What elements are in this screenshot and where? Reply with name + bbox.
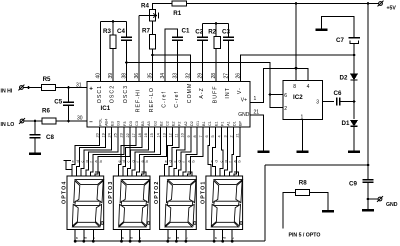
svg-text:R5: R5 xyxy=(43,76,51,83)
junction C8 xyxy=(34,120,37,123)
svg-text:21: 21 xyxy=(236,133,240,137)
svg-text:C3: C3 xyxy=(135,121,139,126)
svg-text:d: d xyxy=(130,237,134,239)
svg-text:GND: GND xyxy=(386,202,398,208)
wire IN LO to pin 30 xyxy=(24,120,87,122)
svg-text:b: b xyxy=(191,160,195,162)
svg-text:38: 38 xyxy=(122,73,128,79)
svg-text:C7: C7 xyxy=(336,37,344,44)
junction C5 bottom xyxy=(67,120,70,123)
wire down to display bus xyxy=(264,165,266,241)
svg-text:e: e xyxy=(214,237,218,239)
svg-text:2: 2 xyxy=(230,135,234,137)
svg-text:D2: D2 xyxy=(340,74,348,81)
svg-text:b: b xyxy=(145,160,149,162)
svg-text:g: g xyxy=(178,160,182,162)
display OPTO4 (7-segment) xyxy=(67,176,104,243)
svg-text:4: 4 xyxy=(217,135,221,137)
svg-text:BP: BP xyxy=(239,120,243,126)
svg-text:d: d xyxy=(168,160,172,162)
svg-text:D1: D1 xyxy=(233,121,237,126)
svg-text:OPTO1: OPTO1 xyxy=(201,181,207,204)
svg-text:d: d xyxy=(122,160,126,162)
svg-text:C2: C2 xyxy=(166,121,170,126)
svg-text:R3: R3 xyxy=(103,28,111,35)
wire IC2 pin 1 to ground xyxy=(302,120,304,151)
svg-text:G2: G2 xyxy=(153,121,157,126)
wire pin 3 to C6 xyxy=(323,101,335,103)
svg-text:B1: B1 xyxy=(202,121,206,126)
svg-text:e: e xyxy=(71,160,75,162)
diode D1 xyxy=(351,121,358,127)
junction C5 top xyxy=(67,86,70,89)
capacitor C5 xyxy=(63,102,74,105)
capacitor C4 xyxy=(121,37,132,40)
svg-text:F3: F3 xyxy=(123,122,127,126)
terminal +5V xyxy=(378,1,384,7)
wire IN LO to C8 xyxy=(34,121,36,135)
wire C4 to OSC3 pin 38 xyxy=(126,40,128,81)
resistor R3 xyxy=(112,22,114,36)
terminal IN HI xyxy=(18,85,24,91)
svg-text:d: d xyxy=(215,160,219,162)
svg-text:24: 24 xyxy=(108,133,112,137)
svg-text:3: 3 xyxy=(223,135,227,137)
svg-text:c: c xyxy=(92,237,96,239)
svg-text:c: c xyxy=(231,237,235,239)
svg-text:e: e xyxy=(118,160,122,162)
svg-text:c: c xyxy=(173,161,177,163)
svg-text:R6: R6 xyxy=(42,108,50,115)
svg-text:31: 31 xyxy=(76,83,82,89)
svg-text:IC1: IC1 xyxy=(101,105,111,112)
wire C6 node to D1 xyxy=(353,102,355,120)
wire segment pin 23 to display 4 xyxy=(90,127,124,176)
svg-text:e: e xyxy=(210,160,214,162)
junction GND node xyxy=(367,198,370,201)
svg-text:C2: C2 xyxy=(195,28,203,35)
svg-text:36: 36 xyxy=(134,73,140,79)
svg-text:C5: C5 xyxy=(54,99,62,106)
svg-text:g: g xyxy=(224,160,228,162)
svg-text:1: 1 xyxy=(254,96,257,102)
wire +5V to IC2 pin 8 xyxy=(295,4,297,81)
svg-text:E1: E1 xyxy=(214,121,218,126)
junction REF-LO link xyxy=(151,54,154,57)
svg-text:R4: R4 xyxy=(141,2,149,9)
svg-text:d: d xyxy=(76,160,80,162)
svg-text:e: e xyxy=(168,237,172,239)
svg-text:13: 13 xyxy=(162,133,166,137)
wire +5V rail xyxy=(187,3,379,5)
svg-text:+: + xyxy=(89,86,93,93)
svg-text:20: 20 xyxy=(95,133,99,137)
svg-text:E3: E3 xyxy=(111,121,115,126)
svg-text:A1: A1 xyxy=(227,121,231,126)
wire R3 to OSC2 pin 39 xyxy=(112,49,114,82)
wire segment pin 24 to display 4 xyxy=(81,127,112,176)
wire pin 1 V+ to IC2 pin 4 xyxy=(250,68,308,102)
svg-text:28: 28 xyxy=(211,73,217,79)
svg-text:5: 5 xyxy=(211,135,215,137)
junction xyxy=(367,2,370,5)
svg-text:g: g xyxy=(131,160,135,162)
svg-text:21: 21 xyxy=(254,110,260,116)
wire D1 to ground xyxy=(353,126,355,151)
wire display1 left staircase xyxy=(63,160,72,176)
svg-text:c: c xyxy=(127,161,131,163)
ground R8 xyxy=(322,210,334,212)
capacitor C8 xyxy=(30,135,41,138)
junction xyxy=(295,2,298,5)
svg-text:REF-LO: REF-LO xyxy=(149,87,155,112)
svg-text:PIN 5 / OPTO: PIN 5 / OPTO xyxy=(289,233,321,239)
ground D1 xyxy=(348,151,360,153)
svg-text:3: 3 xyxy=(316,99,319,105)
svg-text:c: c xyxy=(80,161,84,163)
junction OSC3 bus xyxy=(125,61,128,64)
svg-text:V-: V- xyxy=(237,87,243,94)
svg-text:E2: E2 xyxy=(172,121,176,126)
ground C7 xyxy=(316,29,328,31)
wire to OSC1 pin 40 xyxy=(100,22,102,82)
svg-text:OPTO2: OPTO2 xyxy=(154,181,160,204)
svg-text:12: 12 xyxy=(169,133,173,137)
wire segment pin 15 to display 3 xyxy=(132,127,154,176)
svg-text:OPTO4: OPTO4 xyxy=(62,181,68,204)
svg-text:POL: POL xyxy=(98,118,102,126)
terminal IN LO xyxy=(19,118,25,124)
wire segment pin 10 to display 2 xyxy=(174,127,185,176)
svg-text:IN HI: IN HI xyxy=(1,89,13,95)
svg-text:29: 29 xyxy=(198,73,204,79)
wire C8 to ground xyxy=(34,138,36,153)
svg-text:G3: G3 xyxy=(117,121,121,126)
svg-text:C9: C9 xyxy=(349,180,357,187)
svg-text:25: 25 xyxy=(114,133,118,137)
svg-text:C6: C6 xyxy=(334,90,342,97)
capacitor C9 xyxy=(363,180,374,183)
resistor R7 xyxy=(150,35,156,50)
wire C7 to D2 xyxy=(353,44,355,75)
wire +5V down right side xyxy=(367,4,369,166)
wire pin 21 GND to ground xyxy=(250,115,264,151)
wire R4 wiper to REF-HI pin 36 xyxy=(138,16,140,82)
wire C9 to GND node xyxy=(367,182,369,199)
display OPTO1 (7-segment) xyxy=(206,176,243,243)
ground GND node xyxy=(362,209,374,211)
svg-text:16: 16 xyxy=(144,133,148,137)
svg-text:d: d xyxy=(83,237,87,239)
svg-text:10: 10 xyxy=(181,133,185,137)
wire to C4 xyxy=(126,22,128,38)
svg-text:39: 39 xyxy=(108,73,114,79)
wire segment pin 5 to display 1 xyxy=(213,127,216,176)
svg-text:1: 1 xyxy=(301,115,304,121)
wire IN HI to pin 31 xyxy=(23,87,87,89)
wire segment pin 7 to display 2 xyxy=(188,127,204,176)
svg-text:R2: R2 xyxy=(208,28,216,35)
svg-text:18: 18 xyxy=(138,133,142,137)
wire segment pin 9 to display 2 xyxy=(178,127,191,176)
wire segment pin 12 to display 2 xyxy=(165,127,173,176)
terminal GND xyxy=(377,196,383,202)
svg-text:C-ref: C-ref xyxy=(174,91,180,108)
wire to pin 2 xyxy=(270,95,283,108)
svg-text:27: 27 xyxy=(224,73,230,79)
wire R8 to PIN 5 OPTO xyxy=(283,193,296,229)
wire C1 to C-ref pin 33 xyxy=(177,40,179,81)
svg-text:19: 19 xyxy=(101,133,105,137)
svg-text:IN LO: IN LO xyxy=(1,122,15,128)
svg-text:F2: F2 xyxy=(178,122,182,126)
svg-text:17: 17 xyxy=(132,133,136,137)
svg-text:C1: C1 xyxy=(208,121,212,126)
diode D2 xyxy=(351,74,358,80)
svg-text:9: 9 xyxy=(187,135,191,137)
capacitor C6 xyxy=(337,98,340,106)
svg-text:OSC3: OSC3 xyxy=(123,85,129,103)
svg-text:AB4: AB4 xyxy=(105,119,109,126)
wire segment pin 8 to display 2 xyxy=(183,127,197,176)
wire segment pin 4 to display 1 xyxy=(220,127,223,176)
wire segment pin 3 to display 1 xyxy=(225,127,228,176)
svg-text:6: 6 xyxy=(284,93,287,99)
wire segment pin 21 to display 1 xyxy=(234,127,240,176)
wire segment pin 25 to display 4 xyxy=(86,127,118,176)
resistor R5 xyxy=(42,85,56,91)
junction xyxy=(367,164,370,167)
svg-text:d: d xyxy=(176,237,180,239)
wire C6 to diode node xyxy=(340,101,354,103)
svg-text:e: e xyxy=(164,160,168,162)
capacitor C1 xyxy=(172,37,183,40)
svg-text:32: 32 xyxy=(186,73,192,79)
svg-text:IC2: IC2 xyxy=(293,94,303,101)
svg-text:C-ref: C-ref xyxy=(162,91,168,108)
svg-text:40: 40 xyxy=(96,73,102,79)
wire to C3 xyxy=(228,24,230,38)
potentiometer R4 xyxy=(150,10,156,22)
svg-text:e: e xyxy=(121,237,125,239)
wire REF-LO to COMM pin 32 xyxy=(153,55,191,82)
svg-text:7: 7 xyxy=(199,135,203,137)
svg-text:G1: G1 xyxy=(196,121,200,126)
wire V- pin 26 to charge pump xyxy=(241,55,355,82)
wire segment pin 2 to display 1 xyxy=(229,127,233,176)
wire to GND terminal xyxy=(368,198,378,200)
svg-text:15: 15 xyxy=(150,133,154,137)
wire segment pin 18 to display 3 xyxy=(123,127,142,176)
wire to C5 xyxy=(68,88,70,103)
svg-text:INT: INT xyxy=(225,87,231,99)
wire segment pin 17 to display 3 xyxy=(118,127,136,176)
wire R4 to R7 xyxy=(152,21,154,35)
svg-text:A3: A3 xyxy=(147,121,151,126)
svg-text:OSC1: OSC1 xyxy=(97,85,103,103)
resistor R2 xyxy=(215,24,217,37)
svg-text:F1: F1 xyxy=(220,122,224,126)
IC U2 IC2 body (555) xyxy=(283,81,323,120)
junction IC2 pins 2-6 xyxy=(269,93,272,96)
svg-text:R8: R8 xyxy=(299,180,307,187)
wire segment pin 11 to display 2 xyxy=(169,127,179,176)
svg-text:c: c xyxy=(138,237,142,239)
svg-text:26: 26 xyxy=(236,73,242,79)
wire segment pin 16 to display 3 xyxy=(128,127,149,176)
ground C8 xyxy=(29,153,41,155)
wire R7 to REF-LO pin 35 xyxy=(152,49,154,82)
wire segment pin 13 to display 3 xyxy=(141,127,166,176)
wire C5 to IN LO xyxy=(68,105,70,121)
junction xyxy=(215,22,218,25)
wire C3 to INT pin 27 xyxy=(228,40,230,81)
svg-text:33: 33 xyxy=(173,73,179,79)
wire display common bus xyxy=(76,240,266,242)
svg-text:R7: R7 xyxy=(142,27,150,34)
svg-text:c: c xyxy=(185,237,189,239)
wire segment pin 22 to display 4 xyxy=(95,127,130,176)
svg-text:OPTO3: OPTO3 xyxy=(108,181,114,204)
svg-text:34: 34 xyxy=(160,73,166,79)
svg-text:11: 11 xyxy=(175,134,179,138)
svg-text:8: 8 xyxy=(193,135,197,137)
svg-text:A-Z: A-Z xyxy=(199,87,205,99)
wire segment pin 19 to display 4 xyxy=(77,127,106,176)
svg-text:C3: C3 xyxy=(222,28,230,35)
resistor R6 xyxy=(42,118,56,124)
ground IC1 pin 21 xyxy=(258,151,270,153)
wire segment pin 14 to display 3 xyxy=(137,127,161,176)
svg-text:C4: C4 xyxy=(117,28,125,35)
resistor R1 xyxy=(172,1,187,6)
junction C6 diodes xyxy=(353,100,356,103)
svg-text:e: e xyxy=(75,237,79,239)
wire C2 R2 C3 top node xyxy=(203,23,229,25)
wire R8 to ground xyxy=(310,193,329,211)
svg-text:A2: A2 xyxy=(184,121,188,126)
svg-text:23: 23 xyxy=(120,133,124,137)
svg-text:+5V: +5V xyxy=(387,5,397,11)
svg-text:b: b xyxy=(99,160,103,162)
svg-text:BUFF: BUFF xyxy=(213,85,219,103)
wire R4 top to rail xyxy=(153,4,173,10)
wire D2 to C6 node xyxy=(353,81,355,102)
wire R2 to BUFF pin 28 xyxy=(215,49,217,82)
svg-text:g: g xyxy=(85,160,89,162)
svg-text:22: 22 xyxy=(126,133,130,137)
ground IC2 pin 1 xyxy=(297,151,309,153)
display OPTO2 (7-segment) xyxy=(160,176,197,243)
svg-text:4: 4 xyxy=(307,84,310,90)
capacitor C3 xyxy=(223,37,234,40)
wire to pin 6 xyxy=(270,94,283,96)
capacitor C7 xyxy=(349,37,361,39)
svg-text:R1: R1 xyxy=(173,10,181,17)
svg-text:REF-HI: REF-HI xyxy=(136,89,142,113)
svg-text:30: 30 xyxy=(77,116,83,122)
wire segment pin 6 to display 1 xyxy=(208,127,211,176)
wire ground to C7 xyxy=(322,17,355,38)
svg-text:GND: GND xyxy=(238,112,250,118)
svg-text:COMM: COMM xyxy=(187,83,193,104)
junction V- node xyxy=(353,54,356,57)
svg-text:D3: D3 xyxy=(129,121,133,126)
wire OSC3 to IC2 pins 2,6 xyxy=(127,63,271,95)
svg-text:OSC2: OSC2 xyxy=(110,85,116,103)
capacitor C2 xyxy=(197,37,208,40)
svg-text:b: b xyxy=(238,160,242,162)
svg-text:14: 14 xyxy=(156,133,160,137)
svg-text:–: – xyxy=(89,119,93,126)
wire segment pin 20 to display 4 xyxy=(72,127,100,176)
resistor R8 xyxy=(296,190,310,196)
svg-text:6: 6 xyxy=(205,135,209,137)
display OPTO3 (7-segment) xyxy=(113,176,150,243)
wire to ground xyxy=(367,199,369,209)
svg-text:D2: D2 xyxy=(190,121,194,126)
svg-text:d: d xyxy=(222,237,226,239)
svg-text:V+: V+ xyxy=(241,97,247,103)
wire C1 top to C-ref pin 34 xyxy=(165,29,178,82)
wire to C2 xyxy=(202,24,204,38)
junction xyxy=(112,20,115,23)
wire C2 to A-Z pin 29 xyxy=(202,40,204,81)
svg-text:35: 35 xyxy=(148,73,154,79)
wire R3 C4 top node xyxy=(101,21,127,23)
wire to C9 xyxy=(367,165,369,180)
junction IC2 supply xyxy=(295,67,298,70)
svg-text:2: 2 xyxy=(284,106,287,112)
svg-text:B2: B2 xyxy=(159,121,163,126)
svg-text:D1: D1 xyxy=(342,120,350,127)
svg-text:B3: B3 xyxy=(141,121,145,126)
svg-text:C8: C8 xyxy=(46,134,54,141)
wire +5V to display anode bus xyxy=(265,164,368,166)
svg-text:C1: C1 xyxy=(182,28,190,35)
junction IN HI xyxy=(27,86,30,89)
svg-text:8: 8 xyxy=(293,84,296,90)
svg-text:c: c xyxy=(219,161,223,163)
IC U1 IC1 body (ICL7107) xyxy=(87,82,250,128)
